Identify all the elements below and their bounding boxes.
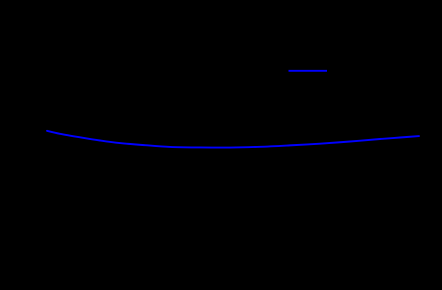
legend sample line (blue) [289, 70, 328, 72]
data curve (blue) [47, 131, 419, 148]
